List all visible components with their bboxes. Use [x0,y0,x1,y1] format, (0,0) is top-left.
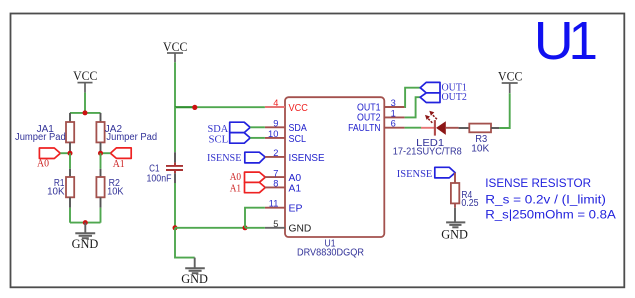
svg-text:VCC: VCC [289,102,309,114]
resistor R3 [459,124,500,155]
svg-text:SDA: SDA [208,124,229,135]
wire VCC to jumper junction [84,93,86,113]
jumper pad JA2 [96,113,157,151]
pin 9 SDA lead [265,126,285,128]
svg-text:11: 11 [269,199,279,209]
op-amp U1 body (IC DRV8830DGQR) [285,97,384,258]
capacitor C1 [147,152,184,184]
net label SDA [208,122,251,135]
pin 11 EP lead [265,207,285,209]
svg-text:17-21SUYC/TR8: 17-21SUYC/TR8 [393,147,462,158]
pin 5 GND lead [265,227,285,229]
pin 1 OUT2 lead [384,116,404,118]
svg-text:5: 5 [273,219,278,229]
svg-text:4: 4 [273,98,278,108]
junction [83,220,88,225]
net label A1 (pin8) [230,182,266,194]
net label OUT2 [420,91,467,103]
net label OUT1 [420,81,467,93]
svg-text:VCC: VCC [73,69,97,83]
wire SCL to pin 10 [250,137,265,139]
svg-text:10K: 10K [107,187,124,198]
svg-text:A0: A0 [37,159,49,170]
svg-text:EP: EP [289,203,303,215]
wire node to pin 4 [195,106,265,108]
wire SDA to pin 9 [250,126,265,128]
svg-text:GND: GND [441,228,468,242]
net label A1 (left) [110,148,131,170]
svg-text:ISENSE: ISENSE [397,168,433,180]
svg-text:GND: GND [289,223,312,235]
junction [83,110,88,115]
wire down to ground (middle) [175,228,195,258]
wire R2 to ground bus [100,208,102,223]
svg-text:7: 7 [273,168,278,178]
ground (left) [72,223,99,251]
svg-text:DRV8830DGQR: DRV8830DGQR [297,247,364,258]
junction [68,151,73,156]
svg-text:GND: GND [72,237,99,251]
resistor R4 [451,173,479,209]
svg-text:10K: 10K [471,143,489,154]
svg-text:A1: A1 [289,182,302,194]
pin 6 FAULTN lead [384,127,404,129]
svg-text:R_s|250mOhm = 0.8A: R_s|250mOhm = 0.8A [485,207,616,221]
power VCC (right) [498,69,522,93]
svg-text:2: 2 [273,148,278,158]
svg-text:Jumper Pad: Jumper Pad [106,132,157,143]
junction [243,225,248,230]
LED LED1 [393,111,462,158]
svg-text:OUT2: OUT2 [442,91,467,103]
wire A0 flag to junction [60,152,70,154]
pin 8 A1 lead [265,186,285,188]
svg-text:SCL: SCL [209,135,229,146]
svg-text:VCC: VCC [498,69,522,83]
svg-text:Jumper Pad: Jumper Pad [15,132,66,143]
pin 3 OUT1 lead [384,106,404,108]
svg-text:1: 1 [569,12,599,71]
pin 10 SCL lead [265,137,285,139]
wire to GND pin 5 [245,227,265,229]
svg-text:100nF: 100nF [147,174,172,185]
junction [173,225,178,230]
svg-text:10K: 10K [47,187,65,198]
ground (R4) [441,208,468,242]
svg-text:6: 6 [391,119,396,129]
wire C1 to gnd bus [174,183,176,228]
svg-text:10: 10 [268,129,278,139]
junction [98,151,103,156]
svg-text:R_s = 0.2v / (I_limit): R_s = 0.2v / (I_limit) [485,192,606,206]
svg-text:VCC: VCC [163,40,187,54]
svg-text:A1: A1 [113,159,125,170]
power VCC (left) [73,69,97,92]
wire gnd bus to EP branch [175,227,245,229]
svg-text:A0: A0 [230,172,241,183]
svg-text:ISENSE: ISENSE [207,152,242,164]
wire node to pin 4 (dark segment) [175,106,195,108]
wire R1 to ground bus [69,208,71,223]
net label A0 (pin7) [230,172,266,183]
wire junction to R1 [69,153,71,169]
svg-text:0.25: 0.25 [461,198,479,209]
wire A1 flag to junction [101,152,111,154]
wire ground bus [70,222,101,224]
net label SCL [209,133,251,146]
pin 7 A0 lead [265,176,285,178]
junction [192,105,197,110]
wire EP branch [245,208,265,228]
wire node down to C1 [174,107,176,152]
resistor R1 [47,169,74,208]
pin 2 ISENSE lead [265,156,285,158]
wire pin 6 to LED [405,127,422,129]
svg-text:1: 1 [391,108,396,118]
svg-text:A1: A1 [230,183,241,194]
wire junction to R2 [100,153,102,169]
svg-text:GND: GND [181,272,208,286]
resistor R2 [96,169,123,208]
net label A0 (left) [37,148,60,170]
svg-text:3: 3 [391,98,396,108]
wire across jumper tops [70,112,101,114]
note ISENSE RESISTOR [485,176,616,221]
net label ISENSE (pin2) [207,152,265,164]
svg-text:ISENSE: ISENSE [289,152,325,164]
svg-text:ISENSE RESISTOR: ISENSE RESISTOR [485,176,591,190]
svg-text:8: 8 [273,179,278,189]
net label ISENSE (R4) [397,167,455,180]
jumper pad JA1 [15,113,74,151]
wire pin 1 to OUT2 flag [405,97,421,117]
wire VCC down to pin4 node [174,62,176,107]
svg-text:FAULTN: FAULTN [348,122,381,134]
wire VCC to R3 [499,93,510,128]
power VCC (middle) [163,40,187,62]
svg-text:SCL: SCL [289,133,307,145]
wire pin 3 to OUT1 flag [405,88,421,107]
pin 4 VCC lead [265,106,285,108]
ground (middle) [181,258,208,287]
svg-text:9: 9 [273,118,278,128]
